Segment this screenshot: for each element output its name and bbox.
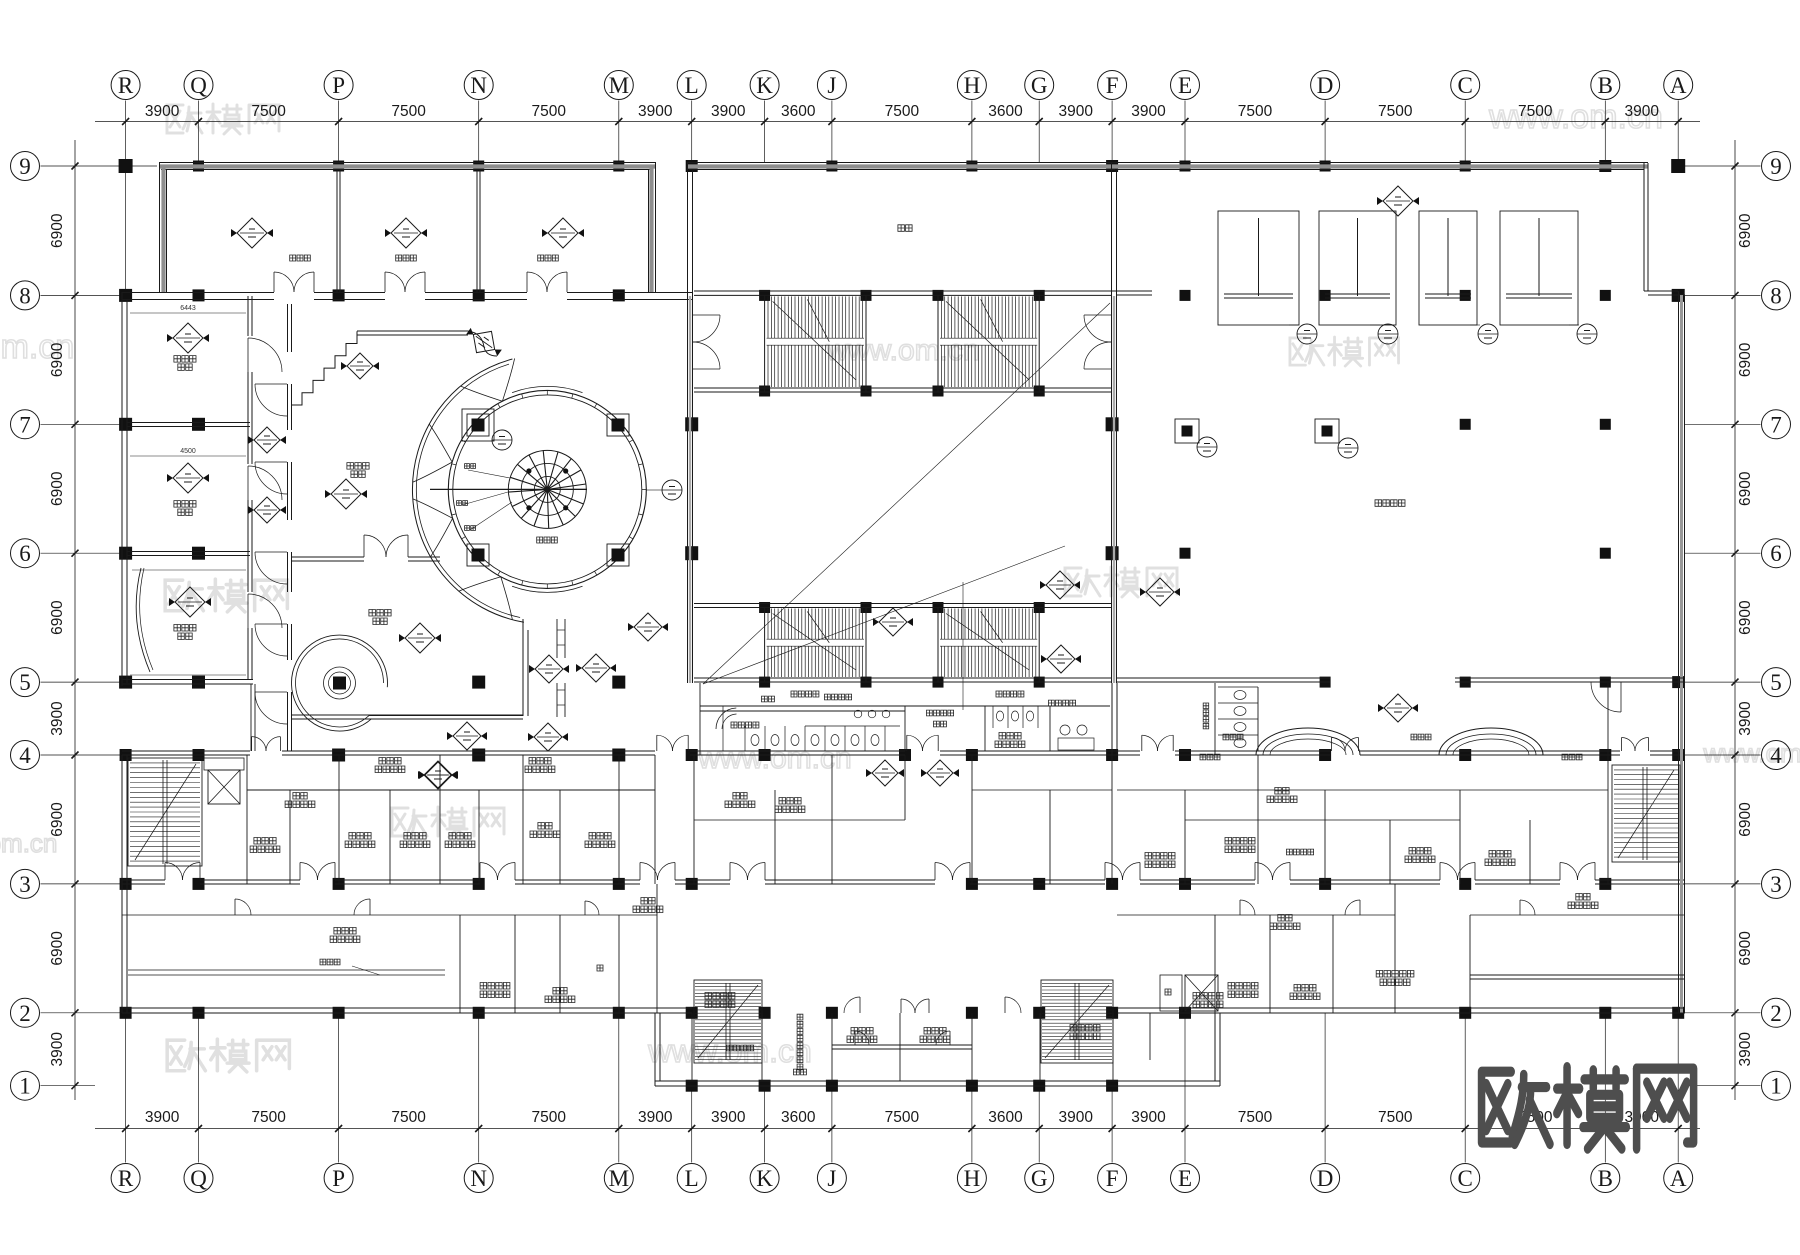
grid dim line left bbox=[74, 140, 76, 1100]
door petal arc bottom bbox=[501, 577, 513, 620]
label 仿古地砖 wing bbox=[727, 1045, 754, 1051]
wall row 4 (long) bbox=[122, 751, 1685, 755]
svg-text:K: K bbox=[756, 73, 773, 98]
tag diamond 铜锣厅 a bbox=[341, 353, 379, 379]
svg-text:L: L bbox=[685, 73, 699, 98]
room label left band 1 bbox=[290, 255, 311, 261]
watermark omw mid-court bbox=[1065, 567, 1177, 597]
tag diamond band 3 bbox=[542, 218, 584, 248]
svg-text:N: N bbox=[470, 1166, 487, 1191]
label 副食品库 bbox=[1228, 983, 1258, 990]
svg-text:4: 4 bbox=[1770, 743, 1782, 768]
toilet label 女卫生间 bbox=[825, 694, 852, 700]
svg-text:3600: 3600 bbox=[781, 1109, 816, 1126]
grid stems bottom bbox=[126, 1013, 1679, 1163]
toilet label 男卫生间 1 bbox=[927, 710, 954, 716]
label 中厨房 bbox=[334, 928, 356, 935]
wall left rooms east bbox=[248, 296, 252, 680]
curved screen + column 中式厅 bbox=[291, 635, 387, 731]
circle hall columns bbox=[462, 409, 629, 566]
label 粗加工 bbox=[589, 833, 611, 840]
door left room2 bbox=[247, 466, 249, 500]
door row4 x=1140 bbox=[1141, 735, 1143, 751]
tag diamond court b bbox=[1040, 571, 1080, 599]
svg-text:3900: 3900 bbox=[1625, 103, 1660, 120]
ring panel bottom bbox=[512, 586, 582, 592]
grid dim ticks top bbox=[122, 118, 1682, 125]
toilet label 地砖2 bbox=[934, 721, 947, 727]
door double at x=547 (top band) bbox=[526, 272, 528, 292]
tag diamond 2/ID-1 bbox=[529, 655, 569, 683]
room label 圆餐厅 bbox=[537, 537, 558, 543]
door 铜锣厅 west y=352 bbox=[255, 383, 287, 385]
toilet label 地砖 bbox=[762, 696, 775, 702]
label 快餐区 1233 bbox=[1223, 734, 1243, 740]
svg-text:3900: 3900 bbox=[1058, 1109, 1093, 1126]
door row3 x=165 bbox=[164, 863, 166, 881]
svg-text:3900: 3900 bbox=[638, 1109, 673, 1126]
wall right building outer bbox=[1117, 163, 1685, 1014]
svg-text:6900: 6900 bbox=[1737, 802, 1754, 837]
svg-text:B: B bbox=[1598, 1166, 1613, 1191]
grid bubbles bottom row bbox=[111, 1164, 140, 1193]
svg-text:www.om.cn: www.om.cn bbox=[697, 742, 851, 775]
watermark omw center-low bbox=[392, 807, 504, 837]
label 备餐 bbox=[293, 793, 307, 800]
svg-text:6900: 6900 bbox=[1737, 600, 1754, 635]
wall right serving west bbox=[1112, 683, 1117, 755]
svg-text:P: P bbox=[332, 1166, 345, 1191]
door 中式厅 divider bbox=[363, 535, 365, 557]
door 铜锣厅 west y=660 bbox=[255, 691, 287, 693]
grid dim line right bbox=[1734, 140, 1736, 1100]
stair left building bbox=[128, 758, 202, 866]
label 快餐区 1210 bbox=[1200, 754, 1220, 760]
door row3 x=640 bbox=[639, 863, 641, 881]
svg-text:7500: 7500 bbox=[1378, 103, 1413, 120]
tag diamond 1/ID-15 bbox=[1378, 694, 1418, 722]
stair right building bbox=[1612, 765, 1680, 862]
label 烧腊房 bbox=[349, 833, 371, 840]
tag diamond 中式厅 bbox=[399, 623, 441, 653]
door petal arc left lower bbox=[430, 518, 452, 557]
wall row5 court gaps bbox=[1330, 679, 1455, 681]
label 通风机房 bbox=[1070, 1025, 1100, 1032]
door double at x=294 (top band) bbox=[273, 272, 275, 292]
grid bubbles top row bbox=[111, 71, 140, 100]
svg-text:3900: 3900 bbox=[49, 1032, 66, 1067]
logo 欧模网 bottom-right bbox=[1482, 1067, 1694, 1149]
svg-text:R: R bbox=[118, 73, 134, 98]
label 调味品库 bbox=[480, 983, 510, 990]
room label 蒙古厅 bbox=[174, 356, 196, 363]
label 切配 bbox=[1278, 915, 1292, 922]
svg-text:A: A bbox=[1670, 1166, 1687, 1191]
drain line 排水沟 bbox=[128, 970, 445, 975]
label 快餐区 1572 bbox=[1562, 754, 1582, 760]
grid stems right bbox=[1685, 166, 1761, 1086]
label 粗加工2 bbox=[779, 798, 801, 805]
tag diamond 3/ID-4 bbox=[628, 613, 668, 641]
tag diamond band 2 bbox=[385, 218, 427, 248]
door wing 1 bbox=[900, 999, 902, 1013]
tag diamond 4/ID-4 bbox=[418, 761, 458, 789]
svg-text:7500: 7500 bbox=[1518, 103, 1553, 120]
svg-text:L: L bbox=[685, 1166, 699, 1191]
tag diamond 5/ID-10 bbox=[866, 760, 904, 786]
wall 中式厅 divider bbox=[291, 557, 440, 561]
svg-text:3900: 3900 bbox=[145, 103, 180, 120]
svg-text:7500: 7500 bbox=[532, 1109, 567, 1126]
svg-text:5: 5 bbox=[1770, 670, 1782, 695]
wall left wing row5 south bbox=[122, 680, 253, 685]
svg-text:F: F bbox=[1106, 73, 1119, 98]
tag diamond 巴厘厅 bbox=[167, 463, 209, 493]
room label left band 3 bbox=[538, 255, 559, 261]
stair upper-right treads bbox=[940, 296, 1037, 387]
ring panel top bbox=[512, 386, 582, 392]
label 储藏间 bbox=[1294, 985, 1316, 992]
tag diamond 2/ID-10 bbox=[921, 760, 959, 786]
svg-text:3600: 3600 bbox=[781, 103, 816, 120]
svg-text:7500: 7500 bbox=[1238, 1109, 1273, 1126]
door row4 x=655 bbox=[656, 735, 658, 751]
tag circle ID-1 top bbox=[492, 430, 512, 450]
wall top band bottom (row 8) bbox=[122, 293, 692, 300]
svg-text:3900: 3900 bbox=[145, 1109, 180, 1126]
svg-text:3900: 3900 bbox=[1737, 1032, 1754, 1067]
svg-text:P: P bbox=[332, 73, 345, 98]
svg-text:6900: 6900 bbox=[49, 931, 66, 966]
toilet stalls east column bbox=[1215, 683, 1258, 755]
grid bubbles right col bbox=[1762, 152, 1791, 181]
tag circles ID-9 row bbox=[1297, 324, 1317, 344]
svg-text:R: R bbox=[118, 1166, 134, 1191]
wall courtyard west (L line) bbox=[688, 296, 693, 683]
svg-text:G: G bbox=[1031, 73, 1048, 98]
label 蒸饭间 bbox=[999, 733, 1021, 740]
floor label 抛光地砖 left bbox=[791, 691, 819, 697]
leader diagonal court 1 bbox=[703, 303, 1110, 684]
svg-text:D: D bbox=[1317, 73, 1334, 98]
svg-text:E: E bbox=[1178, 73, 1192, 98]
door petal arc top bbox=[461, 386, 503, 401]
svg-text:4500: 4500 bbox=[180, 448, 196, 455]
elevator bottom wing bbox=[1185, 975, 1218, 1011]
door row3 x=300 bbox=[299, 863, 301, 881]
doors corridor left bbox=[234, 899, 236, 915]
wall corridor right bbox=[1117, 914, 1685, 916]
label 内院上空 bbox=[731, 722, 759, 728]
svg-text:H: H bbox=[964, 1166, 981, 1191]
door double courtyard west bbox=[693, 314, 720, 316]
tag diamond 2/ID-13 bbox=[1377, 186, 1419, 216]
label 主食品库 bbox=[1225, 838, 1255, 845]
label 排水沟 bbox=[320, 959, 340, 965]
door wing 2 bbox=[859, 997, 861, 1013]
label 阳台 bbox=[794, 1069, 807, 1075]
wall upper stair band bbox=[694, 291, 1112, 392]
room label 中式厅 bbox=[369, 610, 391, 617]
svg-text:6900: 6900 bbox=[49, 471, 66, 506]
grid dim ticks left bbox=[72, 163, 79, 1090]
svg-text:F: F bbox=[1106, 1166, 1119, 1191]
tag circle ID-1 right bbox=[662, 480, 682, 500]
door row4 x=1620 bbox=[1621, 738, 1623, 752]
circle ring mullion ticks bbox=[448, 390, 646, 588]
toilet label 男卫生间 2 bbox=[1049, 700, 1076, 706]
label 走道 left bbox=[641, 898, 655, 905]
watermark omw right-building bbox=[1290, 337, 1399, 366]
bottom wing walls bbox=[655, 1013, 1220, 1086]
svg-text:7500: 7500 bbox=[885, 1109, 920, 1126]
wall partition P (top band) bbox=[337, 170, 340, 292]
svg-text:4: 4 bbox=[19, 743, 31, 768]
wall 铜锣厅 west bbox=[288, 304, 292, 751]
partitions right rows3-2 bbox=[1215, 884, 1685, 1013]
label 水房2 bbox=[733, 793, 747, 800]
svg-text:8: 8 bbox=[1770, 283, 1782, 308]
interior dim strips left rooms bbox=[130, 313, 246, 675]
wall row5 right bbox=[1117, 678, 1685, 682]
svg-text:7500: 7500 bbox=[251, 103, 286, 120]
tag diamond 2/ID-4 bbox=[528, 723, 568, 751]
door 铜锣厅 west y=592 bbox=[255, 623, 287, 625]
svg-text:6900: 6900 bbox=[49, 213, 66, 248]
svg-text:7500: 7500 bbox=[1378, 1109, 1413, 1126]
svg-text:3900: 3900 bbox=[711, 103, 746, 120]
svg-text:C: C bbox=[1458, 1166, 1473, 1191]
svg-text:7500: 7500 bbox=[885, 103, 920, 120]
doors corridor right bbox=[1239, 900, 1241, 915]
door row3 x=730 bbox=[729, 863, 731, 881]
wall left wing row6 partition bbox=[127, 552, 250, 556]
svg-text:2: 2 bbox=[1770, 1001, 1782, 1026]
door row3 x=1440 bbox=[1439, 863, 1441, 881]
svg-text:3900: 3900 bbox=[49, 701, 66, 736]
door offices 2 bbox=[949, 1031, 951, 1045]
svg-text:7500: 7500 bbox=[251, 1109, 286, 1126]
door 铜锣厅 west y=430 bbox=[255, 461, 287, 463]
partitions right rows4-3 bbox=[1185, 683, 1608, 884]
svg-text:A: A bbox=[1670, 73, 1687, 98]
room label left band 2 bbox=[396, 255, 417, 261]
wall left wing outer west bbox=[122, 292, 127, 686]
svg-text:7500: 7500 bbox=[1238, 103, 1273, 120]
svg-text:3900: 3900 bbox=[711, 1109, 746, 1126]
door double courtyard east bbox=[1084, 314, 1111, 316]
label 广播机房 vertical bbox=[797, 1014, 803, 1070]
door left room3 bbox=[247, 594, 249, 628]
wall courtyard east (F line) bbox=[1112, 296, 1117, 683]
wall courtyard top (platform) bbox=[687, 163, 1117, 297]
floor label 抛光地砖 right bbox=[996, 691, 1024, 697]
stair lower-left treads bbox=[767, 609, 864, 678]
wall bottom left building bbox=[122, 1008, 692, 1013]
label 库房 bbox=[553, 988, 567, 995]
tag diamond 1/ID-2 bbox=[447, 722, 487, 750]
svg-text:www.om.cn: www.om.cn bbox=[825, 334, 979, 367]
wall curved (長壽厅) bbox=[136, 568, 150, 672]
svg-text:6900: 6900 bbox=[1737, 342, 1754, 377]
svg-text:3900: 3900 bbox=[1131, 1109, 1166, 1126]
svg-text:5: 5 bbox=[19, 670, 31, 695]
door row3 x=480 bbox=[479, 863, 481, 881]
wall left west lower bbox=[122, 755, 127, 1013]
wall offices south bbox=[832, 1045, 972, 1049]
column squares (structural grid) bbox=[119, 159, 133, 173]
radial leader labels bbox=[462, 470, 512, 530]
wall right row8 stub bbox=[1112, 291, 1152, 295]
partitions left rows4-3 bbox=[247, 755, 655, 884]
grid bubbles left col bbox=[11, 152, 40, 181]
label 蒸汽调味 bbox=[1145, 853, 1175, 860]
label 棉花间 bbox=[1409, 848, 1431, 855]
svg-text:G: G bbox=[1031, 1166, 1048, 1191]
tag diamond 长寿厅 bbox=[169, 587, 211, 617]
door row3 x=1105 bbox=[1104, 863, 1106, 881]
leader vertical court bbox=[962, 582, 964, 710]
spiral stair bbox=[430, 450, 587, 528]
grid stems left bbox=[41, 166, 158, 1086]
tag diamond court d bbox=[1140, 578, 1180, 606]
label 洗碗间 bbox=[449, 833, 471, 840]
svg-text:J: J bbox=[827, 73, 836, 98]
grid dim line top bbox=[95, 121, 1700, 123]
door wing 3 bbox=[1004, 997, 1006, 1013]
svg-text:6900: 6900 bbox=[1737, 931, 1754, 966]
label 水房 bbox=[538, 823, 552, 830]
label 办公室 2 bbox=[924, 1028, 946, 1035]
door row3 x=1560 bbox=[1559, 863, 1561, 881]
svg-text:6900: 6900 bbox=[1737, 213, 1754, 248]
room label 铜锣厅 bbox=[347, 463, 369, 470]
door petal arc left upper bbox=[413, 462, 453, 482]
label 快餐区 1421 bbox=[1411, 734, 1431, 740]
svg-text:8: 8 bbox=[19, 283, 31, 308]
tag diamond corridor2 bbox=[248, 497, 286, 523]
detail squares ID-9 row7 bbox=[1175, 419, 1199, 443]
svg-text:E: E bbox=[1178, 1166, 1192, 1191]
svg-text:Q: Q bbox=[190, 1166, 207, 1191]
label 点心间a bbox=[404, 833, 426, 840]
svg-text:3900: 3900 bbox=[638, 103, 673, 120]
svg-text:6900: 6900 bbox=[49, 600, 66, 635]
svg-text:3900: 3900 bbox=[1737, 701, 1754, 736]
svg-text:N: N bbox=[470, 73, 487, 98]
door row3 x=1255 bbox=[1254, 863, 1256, 881]
grid dim line bottom bbox=[95, 1128, 1700, 1130]
wall circle ring bbox=[448, 390, 646, 588]
tag diamond 铜锣厅 b bbox=[325, 479, 367, 509]
grid stems top bbox=[126, 101, 1679, 292]
tag diamond 4/ID-4 row4 bbox=[419, 762, 457, 788]
svg-text:1: 1 bbox=[1770, 1074, 1782, 1099]
wall partition N (top band) bbox=[477, 170, 480, 292]
room label platform 平台 bbox=[898, 225, 912, 232]
wall mid horizontal left bbox=[247, 789, 655, 791]
svg-text:6443: 6443 bbox=[180, 305, 196, 312]
svg-text:C: C bbox=[1458, 73, 1473, 98]
wall notch curve bbox=[468, 331, 497, 356]
wall stepped NW bbox=[291, 331, 357, 405]
partitions left rows3-2 bbox=[460, 884, 657, 1013]
tag diamond corridor1 bbox=[248, 427, 286, 453]
svg-text:7500: 7500 bbox=[391, 1109, 426, 1126]
svg-text:M: M bbox=[609, 73, 629, 98]
svg-text:Q: Q bbox=[190, 73, 207, 98]
door left room1 bbox=[247, 338, 249, 372]
room label 长寿厅 bbox=[174, 625, 196, 632]
door row4 x=250 bbox=[251, 737, 253, 751]
leader diagonal court 2 bbox=[703, 546, 1065, 684]
stair lower-right treads bbox=[940, 609, 1037, 678]
tag diamond 蒙古厅 bbox=[167, 323, 209, 353]
wall terrace east bbox=[251, 684, 255, 751]
wall 中式厅 east bbox=[523, 619, 528, 716]
svg-text:www.om.cn: www.om.cn bbox=[1703, 738, 1800, 768]
svg-text:7: 7 bbox=[1770, 412, 1782, 437]
label 水 bottom bbox=[1165, 989, 1171, 995]
label 西式点心间 bbox=[1376, 971, 1414, 978]
svg-text:3: 3 bbox=[19, 872, 31, 897]
svg-text:3900: 3900 bbox=[1131, 103, 1166, 120]
wall lower stair band bbox=[694, 604, 1112, 683]
door 铜锣厅 west y=520 bbox=[255, 551, 287, 553]
label 日式区 left bbox=[379, 758, 401, 765]
wall circle outer arc bbox=[412, 359, 523, 622]
watermark omw bottom-left bbox=[167, 1039, 289, 1072]
grid dim ticks right bbox=[1732, 163, 1739, 1090]
wall 铜锣厅 north bbox=[357, 331, 468, 335]
serving arches 快餐区 bbox=[1256, 728, 1360, 755]
wall top-left band outer bbox=[159, 163, 656, 293]
svg-text:6: 6 bbox=[19, 541, 31, 566]
stair bottom-left wing bbox=[694, 980, 762, 1063]
label 健身大堂 bbox=[1375, 500, 1405, 507]
svg-text:D: D bbox=[1317, 1166, 1334, 1191]
door double at x=405 (top band) bbox=[384, 272, 386, 292]
svg-text:B: B bbox=[1598, 73, 1613, 98]
svg-text:6: 6 bbox=[1770, 541, 1782, 566]
wall row 3 (long) bbox=[122, 880, 1685, 884]
mullion screen 日式区 bbox=[557, 619, 565, 717]
tag diamond 1/ID-4 bbox=[576, 654, 616, 682]
svg-text:7500: 7500 bbox=[391, 103, 426, 120]
svg-text:6900: 6900 bbox=[49, 802, 66, 837]
micro labels radial bbox=[465, 464, 476, 469]
label 发餐 bbox=[1275, 788, 1289, 795]
label 日式区 right bbox=[529, 758, 551, 765]
label 水 bbox=[597, 965, 603, 971]
wall mid right bbox=[1117, 790, 1608, 820]
watermark omw top-left bbox=[167, 104, 279, 134]
watermark omw left-center bbox=[165, 579, 287, 612]
svg-text:7: 7 bbox=[19, 412, 31, 437]
wall corridor left bbox=[122, 914, 657, 916]
svg-text:3: 3 bbox=[1770, 872, 1782, 897]
grid dim ticks bottom bbox=[122, 1125, 1682, 1132]
court tables right building bbox=[1218, 211, 1578, 325]
stair upper-left treads bbox=[767, 296, 864, 387]
svg-text:2: 2 bbox=[19, 1001, 31, 1026]
svg-text:6900: 6900 bbox=[49, 342, 66, 377]
svg-text:6900: 6900 bbox=[1737, 471, 1754, 506]
door row4 x=1330 bbox=[1331, 738, 1333, 752]
label 办公室 1 bbox=[851, 1028, 873, 1035]
svg-text:9: 9 bbox=[1770, 154, 1782, 179]
svg-text:7500: 7500 bbox=[532, 103, 567, 120]
